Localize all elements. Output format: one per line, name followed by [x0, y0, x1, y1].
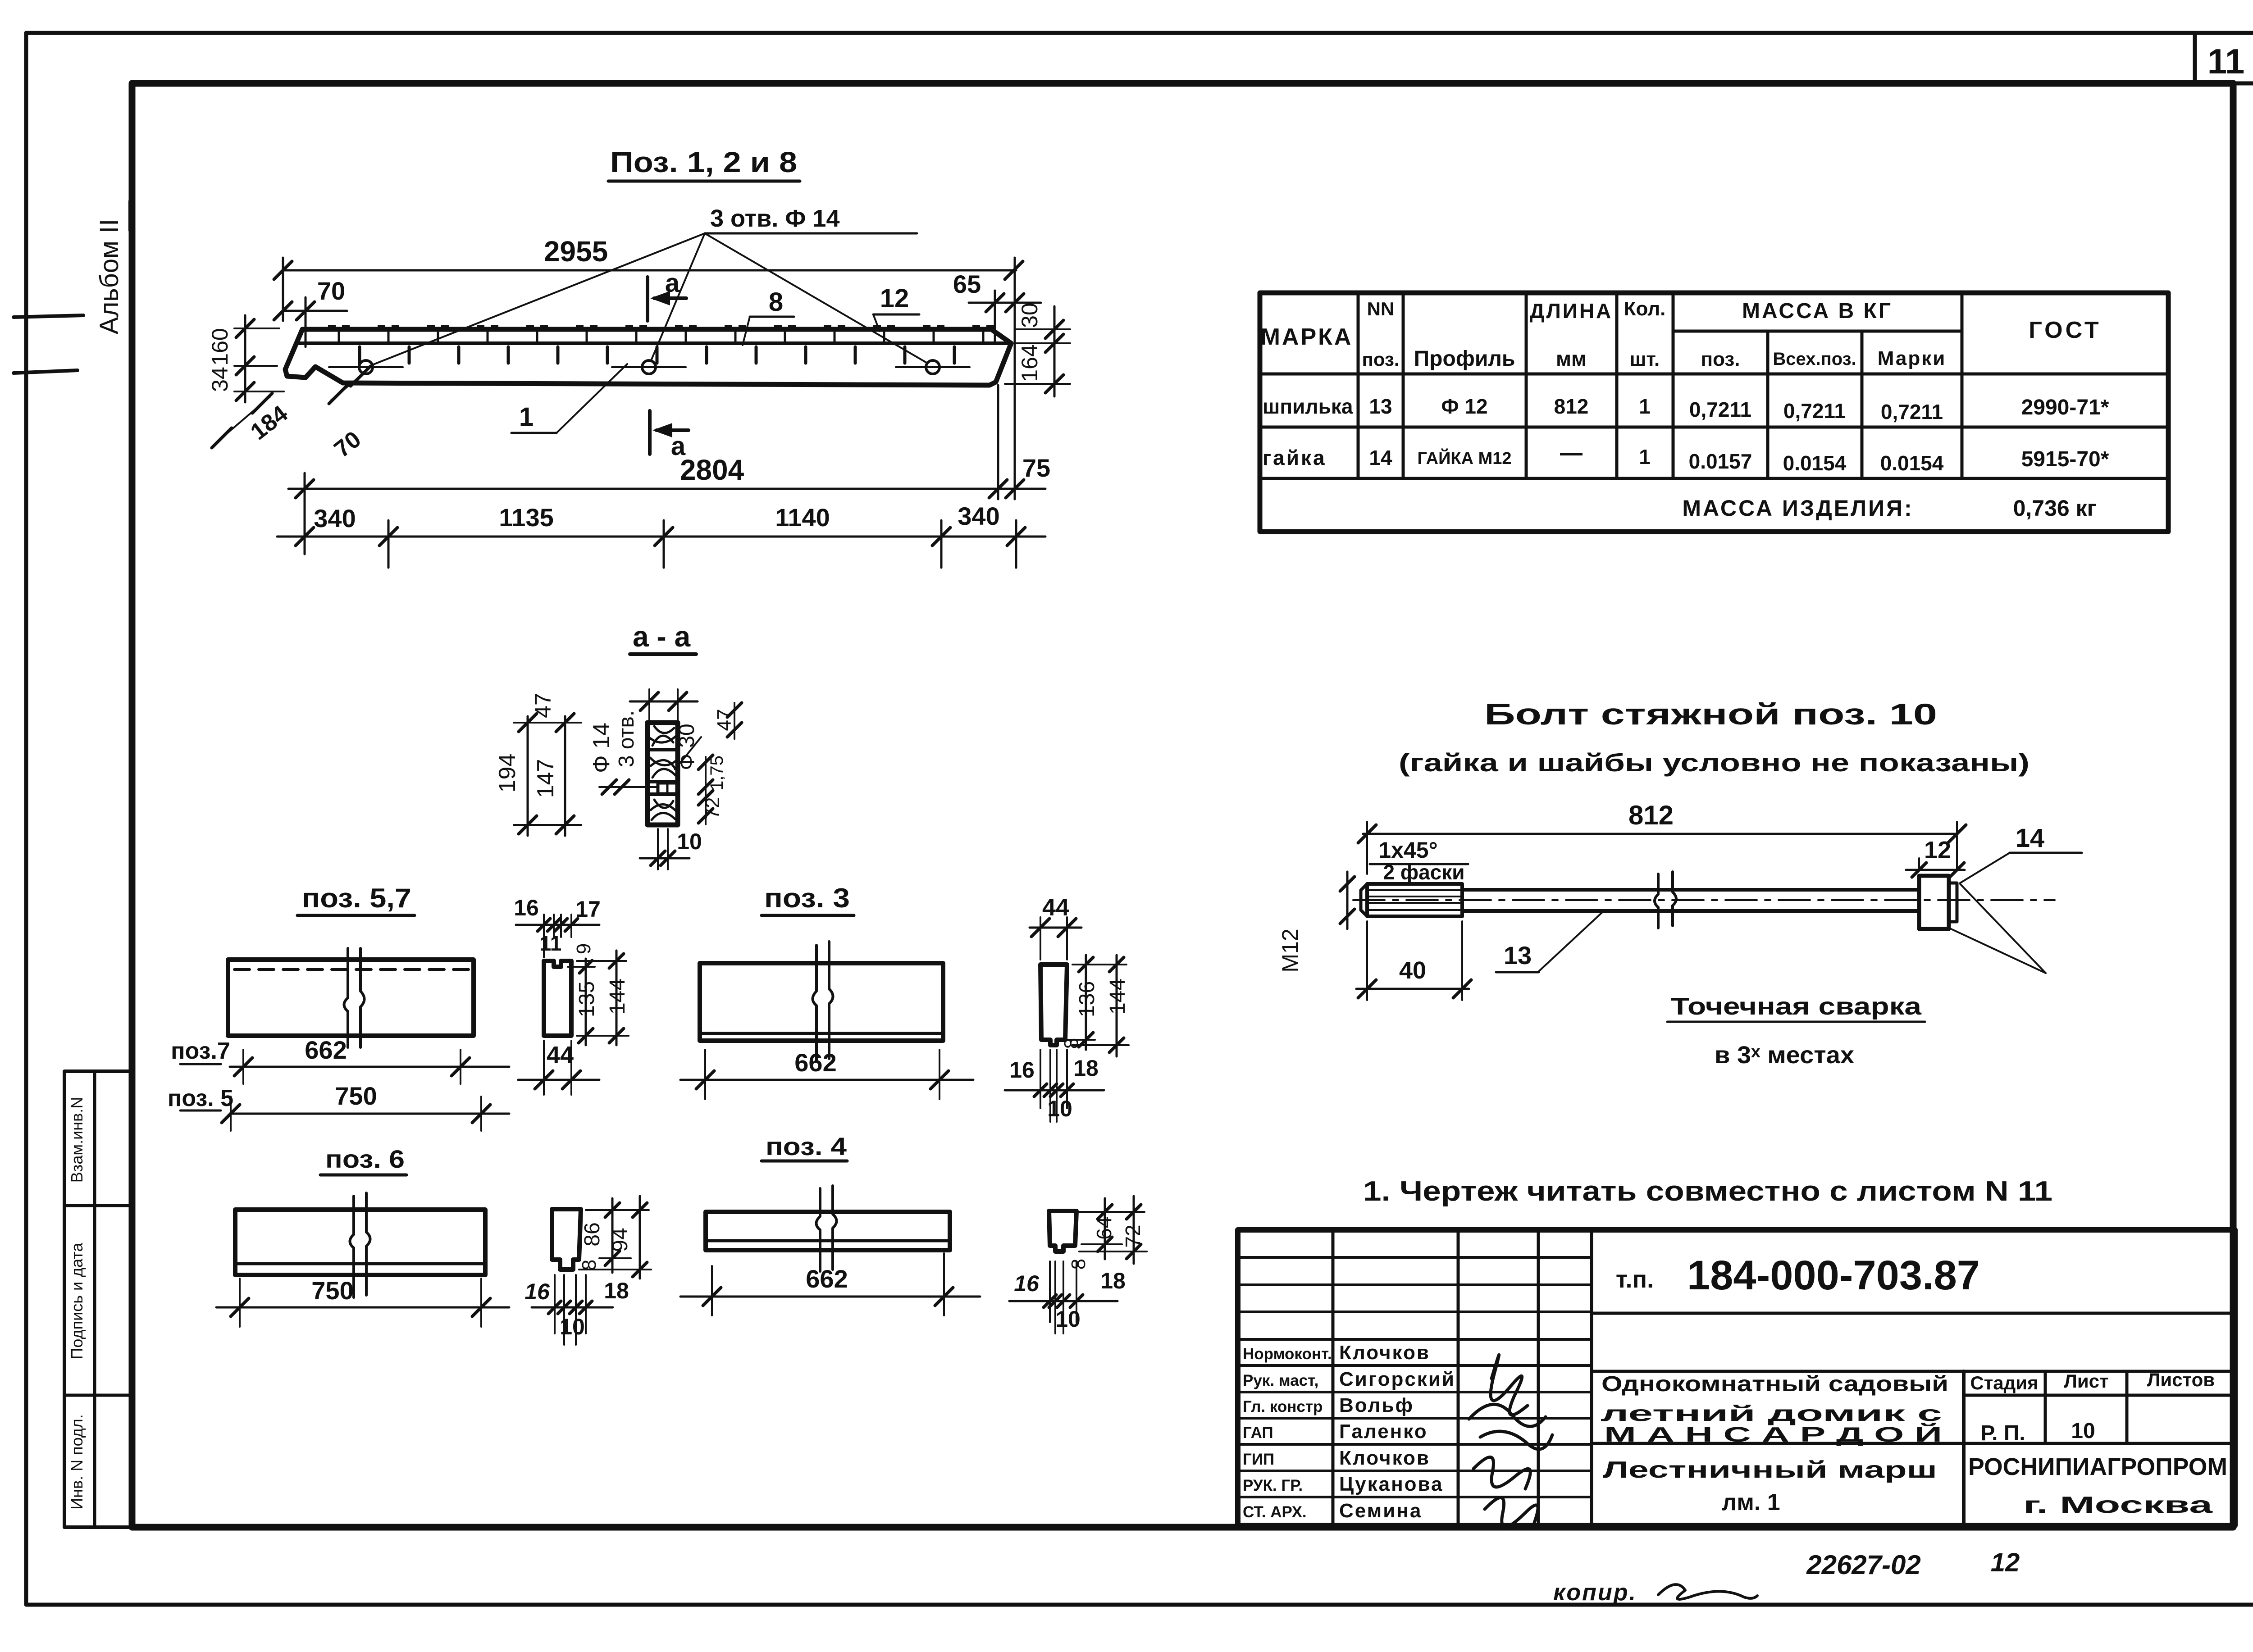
- dim 40: [1356, 988, 1469, 990]
- svg-text:(гайка и шайбы условно не: (гайка и шайбы условно не показаны): [1399, 748, 2030, 777]
- svg-text:Точечная сварка: Точечная сварка: [1671, 993, 1922, 1020]
- svg-text:10: 10: [1055, 1306, 1081, 1332]
- svg-text:13: 13: [1369, 395, 1392, 418]
- svg-text:1. Чертеж читать совместн: 1. Чертеж читать совместно с листом N 11: [1363, 1176, 2052, 1207]
- svg-text:18: 18: [604, 1278, 629, 1303]
- svg-text:поз. 5,7: поз. 5,7: [302, 883, 411, 913]
- svg-text:12: 12: [1924, 837, 1951, 864]
- svg-text:мм: мм: [1556, 347, 1587, 370]
- svg-text:2990-71*: 2990-71*: [2021, 396, 2109, 419]
- svg-text:МАРКА: МАРКА: [1261, 324, 1353, 350]
- svg-text:Лестничный марш: Лестничный марш: [1603, 1457, 1937, 1483]
- board поз.3: [700, 963, 943, 1041]
- svg-text:Семина: Семина: [1339, 1500, 1422, 1522]
- svg-text:МАССА В КГ: МАССА В КГ: [1742, 299, 1893, 323]
- svg-text:лм. 1: лм. 1: [1722, 1489, 1780, 1515]
- svg-text:Ф 14: Ф 14: [588, 723, 615, 773]
- a-a labels Ф30 47 1,75 72 10: [675, 737, 701, 769]
- svg-text:10: 10: [1047, 1096, 1072, 1121]
- svg-text:ДЛИНА: ДЛИНА: [1530, 299, 1613, 323]
- svg-text:РУК. ГР.: РУК. ГР.: [1243, 1477, 1303, 1494]
- svg-text:РОСНИПИАГРОПРОМ: РОСНИПИАГРОПРОМ: [1968, 1453, 2227, 1480]
- board поз.5,7: [228, 960, 474, 1036]
- svg-text:0,736 кг: 0,736 кг: [2013, 496, 2097, 521]
- svg-text:34: 34: [207, 367, 233, 392]
- svg-text:копир.: копир.: [1553, 1579, 1637, 1606]
- dim 70 (left top): [283, 310, 347, 312]
- bolt thread section: [1367, 884, 1462, 916]
- dim M12: [1346, 872, 1349, 929]
- beam top strip line: [296, 341, 1010, 345]
- chain dims 340 1135 1140 340: [277, 536, 1045, 538]
- svg-text:184-000-703.87: 184-000-703.87: [1687, 1252, 1980, 1298]
- svg-text:10: 10: [677, 829, 702, 854]
- svg-text:14: 14: [1369, 446, 1392, 469]
- svg-text:164: 164: [1017, 344, 1042, 382]
- dims 86 94 8 16 18 10: [611, 1198, 614, 1273]
- svg-text:70: 70: [317, 277, 345, 305]
- svg-text:Р. П.: Р. П.: [1980, 1421, 2025, 1445]
- svg-text:2 фаски: 2 фаски: [1383, 860, 1464, 884]
- svg-text:поз. 5: поз. 5: [168, 1085, 233, 1111]
- dim 184 (diagonal): [215, 396, 270, 443]
- svg-text:Подпись и дата: Подпись и дата: [68, 1242, 86, 1360]
- center line: [1353, 899, 2055, 901]
- svg-text:Листов: Листов: [2147, 1369, 2215, 1390]
- section mark a upper: [646, 277, 649, 321]
- svg-text:М А Н С А Р Д О Й: М А Н С А Р Д О Й: [1604, 1423, 1942, 1446]
- weld leader lines: [1960, 884, 2046, 973]
- svg-text:Альбом II: Альбом II: [95, 219, 124, 334]
- a-a dim 10 bottom: [640, 857, 689, 860]
- strip cross-section in a-a: [658, 783, 677, 794]
- left stamp boxes: [64, 1071, 132, 1527]
- beam teeth and divisions: [328, 325, 994, 330]
- svg-text:3 отв. Ф 14: 3 отв. Ф 14: [710, 205, 839, 232]
- svg-text:662: 662: [806, 1265, 848, 1293]
- svg-text:2804: 2804: [680, 454, 744, 486]
- svg-text:ГАП: ГАП: [1243, 1424, 1273, 1442]
- dim 662 поз.3: [680, 1079, 973, 1081]
- section mark a lower: [648, 411, 652, 454]
- board поз.4: [706, 1212, 950, 1250]
- dim 812: [1363, 833, 1957, 835]
- svg-text:—: —: [1560, 440, 1583, 465]
- svg-text:NN: NN: [1367, 298, 1395, 319]
- svg-text:1х45°: 1х45°: [1378, 837, 1437, 863]
- svg-text:16: 16: [514, 895, 539, 920]
- svg-text:13: 13: [1504, 941, 1532, 969]
- section a-a timber cross-section: [648, 723, 678, 825]
- svg-text:Галенко: Галенко: [1339, 1420, 1428, 1443]
- svg-text:а: а: [665, 269, 680, 298]
- svg-text:16: 16: [1014, 1271, 1040, 1296]
- svg-text:8: 8: [769, 287, 783, 317]
- svg-text:в 3ˣ местах: в 3ˣ местах: [1715, 1042, 1854, 1069]
- svg-text:поз. 6: поз. 6: [325, 1145, 405, 1173]
- svg-text:Кол.: Кол.: [1624, 298, 1666, 320]
- stringer beam поз.1 outline: [285, 329, 1011, 385]
- svg-text:Всех.поз.: Всех.поз.: [1773, 349, 1856, 369]
- cross-section поз.6: [552, 1209, 581, 1270]
- svg-text:10: 10: [2071, 1419, 2095, 1443]
- svg-text:30: 30: [1017, 303, 1042, 328]
- svg-text:135: 135: [575, 981, 599, 1017]
- dims 64 72 8 16 18 10: [1104, 1198, 1106, 1259]
- dim 30 / 164 (right side): [1054, 306, 1056, 396]
- svg-text:12: 12: [1991, 1548, 2020, 1577]
- svg-text:2955: 2955: [544, 235, 608, 268]
- svg-text:194: 194: [494, 754, 520, 793]
- svg-text:64: 64: [1092, 1216, 1116, 1239]
- svg-text:Поз. 1, 2 и 8: Поз. 1, 2 и 8: [610, 146, 797, 178]
- svg-text:16: 16: [524, 1279, 550, 1304]
- svg-text:22627-02: 22627-02: [1806, 1550, 1921, 1580]
- svg-text:1140: 1140: [775, 503, 830, 532]
- svg-text:18: 18: [1100, 1268, 1126, 1293]
- svg-text:17: 17: [575, 897, 601, 922]
- dim 44 bottom: [518, 1079, 599, 1081]
- svg-text:1: 1: [1639, 445, 1651, 469]
- svg-text:0,7211: 0,7211: [1783, 399, 1846, 423]
- svg-text:3 отв.: 3 отв.: [615, 710, 639, 768]
- svg-text:94: 94: [608, 1228, 632, 1252]
- svg-text:М12: М12: [1277, 928, 1303, 972]
- svg-text:Марки: Марки: [1878, 347, 1947, 369]
- title block right part lines: [1592, 1312, 2235, 1315]
- svg-text:Цуканова: Цуканова: [1339, 1473, 1444, 1495]
- svg-text:Ф 12: Ф 12: [1441, 395, 1487, 418]
- svg-text:5915-70*: 5915-70*: [2021, 447, 2109, 471]
- svg-text:0,7211: 0,7211: [1881, 400, 1943, 423]
- svg-text:1,75: 1,75: [707, 755, 727, 791]
- svg-text:Ф 30: Ф 30: [675, 724, 699, 770]
- cross-section поз.4: [1049, 1211, 1076, 1252]
- svg-text:18: 18: [1073, 1056, 1099, 1081]
- svg-text:11: 11: [2207, 41, 2244, 81]
- svg-text:0.0154: 0.0154: [1880, 451, 1944, 475]
- svg-text:340: 340: [958, 502, 999, 530]
- dim 70 (diagonal at notch): [331, 370, 367, 400]
- svg-text:поз. 3: поз. 3: [764, 883, 850, 913]
- shaft break: [1655, 872, 1676, 928]
- svg-text:Профиль: Профиль: [1414, 347, 1515, 371]
- title block frame: [1238, 1230, 2235, 1525]
- svg-text:ГАЙКА М12: ГАЙКА М12: [1417, 448, 1511, 468]
- svg-text:184: 184: [246, 400, 292, 445]
- svg-text:Клочков: Клочков: [1339, 1447, 1430, 1469]
- svg-text:44: 44: [547, 1042, 574, 1069]
- svg-text:9: 9: [573, 943, 595, 954]
- svg-text:144: 144: [1106, 978, 1130, 1015]
- svg-text:0.0154: 0.0154: [1783, 451, 1847, 475]
- copier signature: [1658, 1584, 1757, 1599]
- svg-text:Инв. N подл.: Инв. N подл.: [68, 1414, 86, 1510]
- svg-text:1: 1: [1639, 395, 1651, 418]
- fold mark upper: [14, 315, 83, 317]
- svg-text:1: 1: [519, 402, 534, 432]
- svg-text:340: 340: [314, 504, 356, 532]
- svg-text:812: 812: [1628, 800, 1674, 830]
- svg-text:12: 12: [880, 284, 909, 313]
- break mark: [813, 942, 833, 1061]
- nut: [1919, 876, 1949, 929]
- svg-text:47: 47: [713, 709, 735, 731]
- svg-text:МАССА ИЗДЕЛИЯ:: МАССА ИЗДЕЛИЯ:: [1682, 496, 1913, 521]
- svg-text:10: 10: [560, 1314, 585, 1339]
- title block left rows: [1238, 1256, 1592, 1259]
- svg-text:0,7211: 0,7211: [1689, 398, 1751, 421]
- svg-text:поз.7: поз.7: [171, 1038, 230, 1064]
- svg-text:Однокомнатный садовый: Однокомнатный садовый: [1601, 1372, 1948, 1396]
- svg-text:гайка: гайка: [1263, 446, 1327, 469]
- svg-text:поз.: поз.: [1701, 348, 1740, 370]
- svg-text:т.п.: т.п.: [1616, 1266, 1654, 1293]
- break mark: [816, 1186, 837, 1271]
- svg-text:ГИП: ГИП: [1243, 1451, 1274, 1468]
- svg-text:136: 136: [1075, 981, 1099, 1017]
- svg-text:144: 144: [606, 978, 629, 1015]
- svg-text:Клочков: Клочков: [1339, 1342, 1430, 1364]
- wood grain: [650, 726, 676, 820]
- svg-text:662: 662: [305, 1036, 347, 1064]
- dim 2804: [288, 488, 998, 490]
- bolt holes in beam: [359, 360, 373, 374]
- svg-text:147: 147: [533, 759, 559, 798]
- svg-text:8: 8: [1067, 1259, 1090, 1270]
- svg-text:Нормоконт.: Нормоконт.: [1243, 1345, 1332, 1363]
- svg-text:86: 86: [580, 1222, 604, 1246]
- break mark: [350, 1193, 370, 1297]
- dim 750 поз.6: [216, 1306, 509, 1309]
- cross-section поз.3: [1040, 965, 1067, 1045]
- bolt shaft: [1462, 888, 1919, 892]
- svg-text:Рук. маст,: Рук. маст,: [1243, 1372, 1318, 1389]
- svg-text:40: 40: [1399, 957, 1426, 984]
- right reference extension line: [1014, 258, 1016, 499]
- svg-text:1135: 1135: [499, 503, 554, 532]
- top band line / inner frame top: [132, 82, 2253, 86]
- cross-section поз.5,7: [544, 961, 571, 1036]
- svg-text:44: 44: [1042, 894, 1069, 921]
- svg-text:Сигорский: Сигорский: [1339, 1368, 1455, 1390]
- a-a top dim: [630, 701, 698, 703]
- svg-text:72: 72: [1121, 1224, 1145, 1247]
- svg-text:Вольф: Вольф: [1339, 1394, 1414, 1416]
- fold mark lower: [14, 370, 78, 373]
- svg-text:70: 70: [329, 426, 366, 463]
- svg-text:14: 14: [2016, 824, 2045, 853]
- svg-text:г. Москва: г. Москва: [2023, 1492, 2213, 1518]
- svg-text:поз. 4: поз. 4: [766, 1132, 847, 1160]
- svg-text:0.0157: 0.0157: [1689, 450, 1752, 473]
- page number box divider: [2193, 33, 2197, 83]
- svg-text:шпилька: шпилька: [1263, 395, 1353, 418]
- svg-text:Взам.инв.N: Взам.инв.N: [68, 1097, 86, 1183]
- svg-text:поз.: поз.: [1362, 349, 1399, 370]
- svg-text:750: 750: [335, 1082, 377, 1110]
- svg-text:шт.: шт.: [1630, 348, 1660, 370]
- svg-text:Лист: Лист: [2064, 1370, 2108, 1392]
- svg-text:ГОСТ: ГОСТ: [2029, 317, 2101, 343]
- board поз.6: [235, 1210, 485, 1275]
- svg-text:662: 662: [794, 1048, 836, 1077]
- svg-text:812: 812: [1554, 395, 1589, 418]
- signatures squiggles: [1491, 1355, 1528, 1415]
- svg-text:СТ. АРХ.: СТ. АРХ.: [1243, 1503, 1307, 1521]
- svg-text:Болт стяжной поз. 10: Болт стяжной поз. 10: [1484, 697, 1937, 731]
- dim 2955: [283, 269, 1016, 272]
- svg-text:750: 750: [311, 1276, 353, 1305]
- dim 662 поз.4: [680, 1296, 980, 1298]
- svg-text:65: 65: [953, 270, 981, 298]
- svg-text:а - а: а - а: [633, 620, 690, 653]
- svg-text:75: 75: [1022, 454, 1050, 482]
- svg-text:16: 16: [1009, 1057, 1035, 1083]
- svg-text:Стадия: Стадия: [1970, 1372, 2038, 1393]
- dim 160 and 34 (left): [244, 315, 246, 402]
- specification table: [1260, 293, 2168, 532]
- break mark: [344, 948, 365, 1047]
- svg-text:160: 160: [207, 328, 233, 365]
- svg-text:Гл. констр: Гл. констр: [1243, 1398, 1323, 1415]
- svg-text:11: 11: [540, 932, 562, 955]
